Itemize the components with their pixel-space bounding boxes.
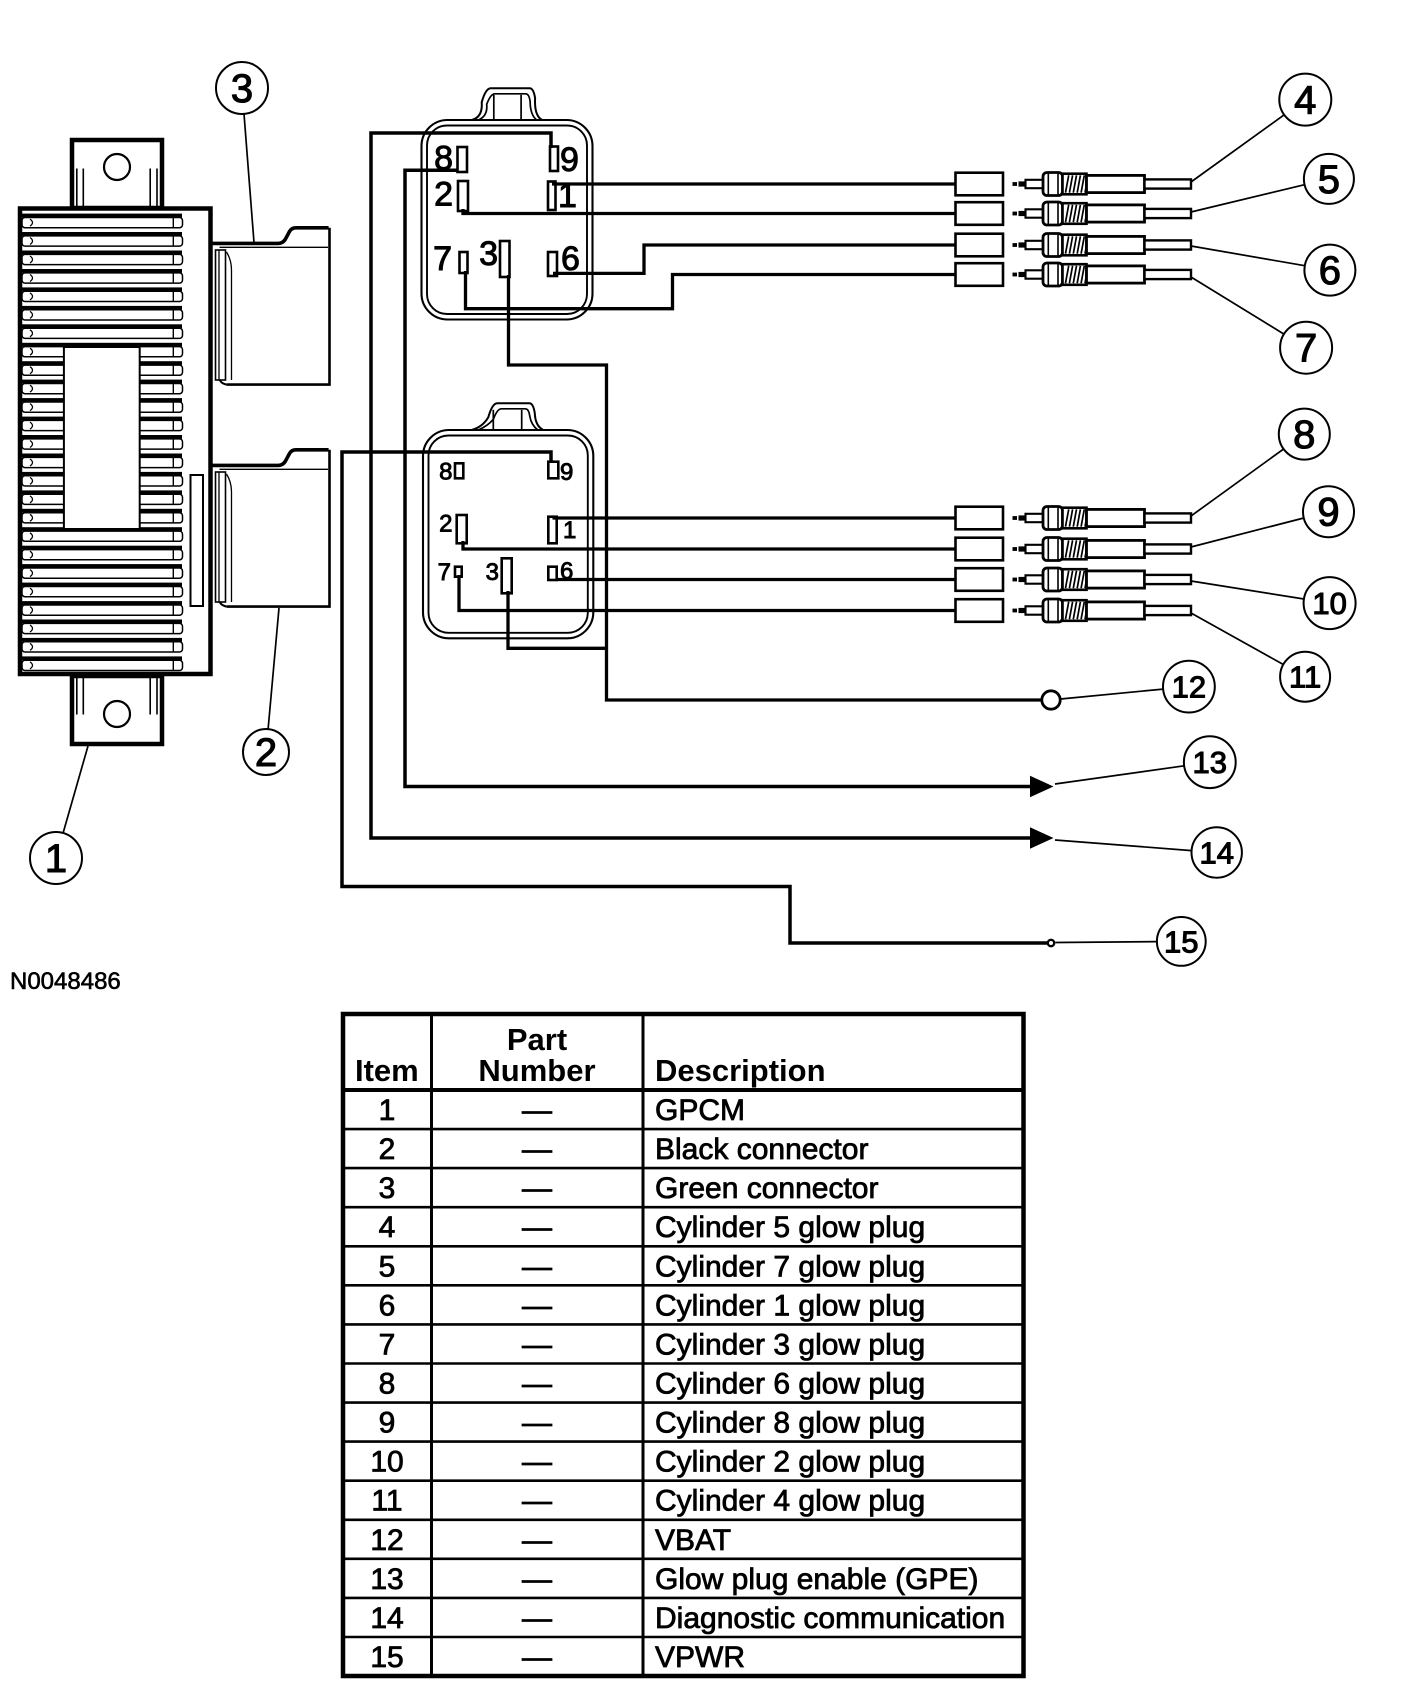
svg-text:13: 13 bbox=[1193, 745, 1227, 780]
svg-text:9: 9 bbox=[379, 1407, 396, 1440]
svg-text:—: — bbox=[522, 1485, 552, 1518]
svg-text:Cylinder 7 glow plug: Cylinder 7 glow plug bbox=[655, 1250, 925, 1283]
svg-text:1: 1 bbox=[379, 1094, 396, 1127]
svg-text:7: 7 bbox=[1295, 327, 1317, 371]
svg-text:—: — bbox=[522, 1094, 552, 1127]
svg-text:4: 4 bbox=[379, 1211, 396, 1244]
svg-text:8: 8 bbox=[1293, 413, 1315, 457]
svg-text:Cylinder 3 glow plug: Cylinder 3 glow plug bbox=[655, 1328, 925, 1361]
svg-text:7: 7 bbox=[438, 559, 451, 586]
svg-text:1: 1 bbox=[563, 517, 576, 544]
svg-text:11: 11 bbox=[371, 1485, 402, 1518]
svg-text:13: 13 bbox=[370, 1563, 403, 1596]
svg-text:3: 3 bbox=[379, 1172, 396, 1205]
svg-text:Black connector: Black connector bbox=[655, 1133, 868, 1166]
svg-text:15: 15 bbox=[370, 1641, 403, 1674]
svg-text:1: 1 bbox=[45, 837, 67, 881]
svg-text:9: 9 bbox=[1317, 491, 1339, 535]
svg-text:Cylinder 4 glow plug: Cylinder 4 glow plug bbox=[655, 1485, 925, 1518]
svg-text:—: — bbox=[522, 1407, 552, 1440]
svg-text:GPCM: GPCM bbox=[655, 1094, 745, 1127]
svg-text:—: — bbox=[522, 1446, 552, 1479]
svg-text:10: 10 bbox=[370, 1446, 403, 1479]
svg-text:4: 4 bbox=[1294, 79, 1316, 123]
svg-text:—: — bbox=[522, 1211, 552, 1244]
svg-text:Diagnostic communication: Diagnostic communication bbox=[655, 1602, 1005, 1635]
svg-text:—: — bbox=[522, 1524, 552, 1557]
svg-text:5: 5 bbox=[379, 1250, 396, 1283]
svg-text:Number: Number bbox=[478, 1053, 595, 1088]
svg-text:—: — bbox=[522, 1250, 552, 1283]
svg-text:Green connector: Green connector bbox=[655, 1172, 878, 1205]
svg-text:9: 9 bbox=[560, 459, 573, 486]
svg-text:5: 5 bbox=[1318, 158, 1340, 202]
svg-text:—: — bbox=[522, 1368, 552, 1401]
svg-text:Cylinder 5 glow plug: Cylinder 5 glow plug bbox=[655, 1211, 925, 1244]
svg-text:Cylinder 2 glow plug: Cylinder 2 glow plug bbox=[655, 1446, 925, 1479]
svg-text:Cylinder 1 glow plug: Cylinder 1 glow plug bbox=[655, 1289, 925, 1322]
svg-text:15: 15 bbox=[1164, 924, 1198, 959]
svg-text:—: — bbox=[522, 1172, 552, 1205]
svg-text:6: 6 bbox=[1319, 249, 1341, 293]
svg-text:N0048486: N0048486 bbox=[10, 968, 121, 995]
svg-text:VBAT: VBAT bbox=[655, 1524, 731, 1557]
svg-text:14: 14 bbox=[1199, 836, 1233, 871]
svg-text:—: — bbox=[522, 1641, 552, 1674]
svg-text:2: 2 bbox=[379, 1133, 396, 1166]
svg-text:2: 2 bbox=[255, 731, 277, 775]
svg-text:3: 3 bbox=[231, 67, 253, 111]
svg-text:—: — bbox=[522, 1602, 552, 1635]
svg-text:7: 7 bbox=[379, 1328, 396, 1361]
svg-text:12: 12 bbox=[1172, 670, 1206, 705]
svg-text:3: 3 bbox=[479, 235, 498, 273]
svg-text:VPWR: VPWR bbox=[655, 1641, 745, 1674]
svg-text:Item: Item bbox=[355, 1053, 419, 1088]
svg-text:Part: Part bbox=[507, 1022, 567, 1057]
svg-text:—: — bbox=[522, 1563, 552, 1596]
svg-text:14: 14 bbox=[370, 1602, 403, 1635]
svg-text:3: 3 bbox=[486, 559, 499, 586]
svg-text:9: 9 bbox=[560, 141, 579, 179]
svg-text:7: 7 bbox=[433, 240, 452, 278]
svg-text:—: — bbox=[522, 1328, 552, 1361]
svg-text:11: 11 bbox=[1289, 660, 1321, 695]
svg-text:Cylinder 8 glow plug: Cylinder 8 glow plug bbox=[655, 1407, 925, 1440]
svg-text:Description: Description bbox=[655, 1053, 826, 1088]
svg-text:2: 2 bbox=[439, 511, 452, 538]
svg-text:12: 12 bbox=[370, 1524, 403, 1557]
svg-text:8: 8 bbox=[439, 459, 452, 486]
svg-text:6: 6 bbox=[379, 1289, 396, 1322]
svg-text:2: 2 bbox=[434, 176, 453, 214]
svg-text:8: 8 bbox=[379, 1368, 396, 1401]
svg-text:—: — bbox=[522, 1289, 552, 1322]
svg-text:Cylinder 6 glow plug: Cylinder 6 glow plug bbox=[655, 1368, 925, 1401]
svg-text:10: 10 bbox=[1312, 586, 1346, 621]
svg-text:—: — bbox=[522, 1133, 552, 1166]
svg-text:Glow plug enable (GPE): Glow plug enable (GPE) bbox=[655, 1563, 979, 1596]
